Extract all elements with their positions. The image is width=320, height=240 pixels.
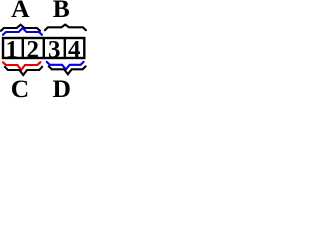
svg-text:2: 2 [27, 37, 40, 64]
svg-text:4: 4 [68, 37, 81, 64]
svg-text:1: 1 [6, 37, 19, 64]
svg-text:B: B [53, 0, 70, 23]
svg-text:C: C [11, 74, 29, 99]
svg-text:3: 3 [48, 37, 61, 64]
svg-text:A: A [11, 0, 30, 23]
svg-text:D: D [52, 74, 70, 99]
